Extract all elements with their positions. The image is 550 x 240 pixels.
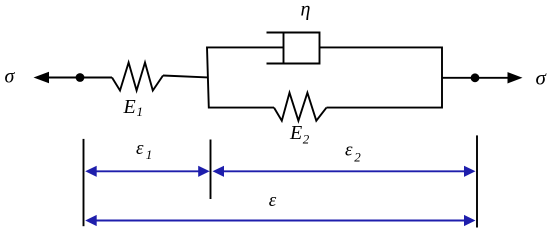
svg-text:σ: σ [5,66,16,88]
arrowhead right stress arrow [508,72,523,83]
svg-text:1: 1 [137,104,144,119]
node dot left [76,73,85,82]
box right: bottom-right wire, right vertical, top-right rod [320,47,443,107]
svg-text:ε: ε [345,139,353,160]
tick middle [210,140,212,200]
dimension arrow epsilon2 [213,166,476,177]
svg-text:2: 2 [303,132,310,147]
wire spring E1 to box [163,76,208,78]
spring E2 [274,93,327,121]
dimension arrow epsilon1 [85,166,210,177]
spring E1 [112,63,163,91]
svg-text:E: E [123,96,136,118]
svg-text:η: η [301,0,311,21]
dashpot piston plate [283,33,285,64]
svg-text:1: 1 [146,147,153,162]
dimension arrow epsilon [85,215,475,226]
wire right stress arrow [442,77,509,79]
arrowhead left stress arrow [34,72,50,83]
tick right [476,135,478,227]
svg-text:E: E [289,122,302,144]
tick left [83,139,85,226]
dashpot cylinder (open left) [267,33,320,64]
svg-text:2: 2 [354,150,361,165]
svg-text:σ: σ [536,66,548,90]
svg-text:ε: ε [136,138,144,159]
box left: top-left rod, left vertical, bottom-left wire [207,47,284,107]
wire left stress arrow [47,77,112,79]
svg-text:ε: ε [269,190,277,211]
node dot right [471,73,480,82]
